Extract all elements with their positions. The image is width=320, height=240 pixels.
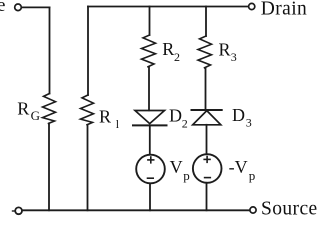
svg-text:l: l: [116, 117, 120, 131]
wire R1 branch top: [87, 7, 89, 96]
resistor R1: [81, 95, 94, 125]
svg-text:e: e: [0, 0, 5, 16]
diode D3: [192, 110, 222, 125]
svg-text:Source: Source: [261, 199, 317, 219]
wire R2 branch top: [149, 7, 151, 36]
wire R3 to D3: [205, 68, 207, 110]
svg-text:R: R: [162, 39, 174, 59]
svg-text:R: R: [99, 106, 111, 126]
wire Vp to bottom rail: [149, 183, 151, 210]
wire R1 to bottom rail: [87, 125, 89, 211]
svg-text:R: R: [219, 39, 231, 59]
node Source terminal: [250, 207, 256, 213]
source Vp: [136, 155, 165, 184]
wire gate horizontal: [21, 6, 49, 8]
svg-text:2: 2: [182, 116, 188, 130]
svg-text:D: D: [169, 106, 182, 126]
svg-text:p: p: [183, 168, 190, 183]
resistor R3: [198, 36, 212, 68]
svg-text:3: 3: [231, 50, 237, 64]
wire D2 to Vp: [149, 125, 151, 154]
wire D3 to -Vp: [206, 125, 208, 155]
svg-text:-V: -V: [229, 157, 248, 177]
svg-text:R: R: [17, 98, 29, 118]
wire top rail: [88, 6, 249, 8]
svg-text:D: D: [232, 105, 245, 125]
wire R3 branch top: [205, 7, 207, 37]
resistor RG: [43, 94, 56, 124]
svg-text:2: 2: [174, 50, 180, 64]
wire stub left of bottom terminal: [13, 210, 16, 212]
source -Vp: [193, 154, 222, 183]
svg-text:p: p: [249, 168, 256, 183]
wire RG to bottom rail: [48, 123, 50, 210]
resistor R2: [142, 35, 156, 67]
wire -Vp to bottom rail: [206, 183, 208, 211]
node Gate terminal: [15, 4, 22, 11]
svg-text:Drain: Drain: [261, 0, 307, 20]
node Drain terminal: [249, 3, 255, 9]
svg-text:V: V: [170, 157, 183, 177]
diode D2: [133, 111, 167, 126]
wire R2 to D2: [148, 67, 150, 111]
wire bottom rail: [22, 209, 250, 211]
node bottom-left terminal: [15, 207, 22, 214]
svg-text:3: 3: [246, 116, 252, 130]
wire gate vertical down to RG: [49, 7, 51, 93]
svg-text:G: G: [31, 108, 40, 123]
